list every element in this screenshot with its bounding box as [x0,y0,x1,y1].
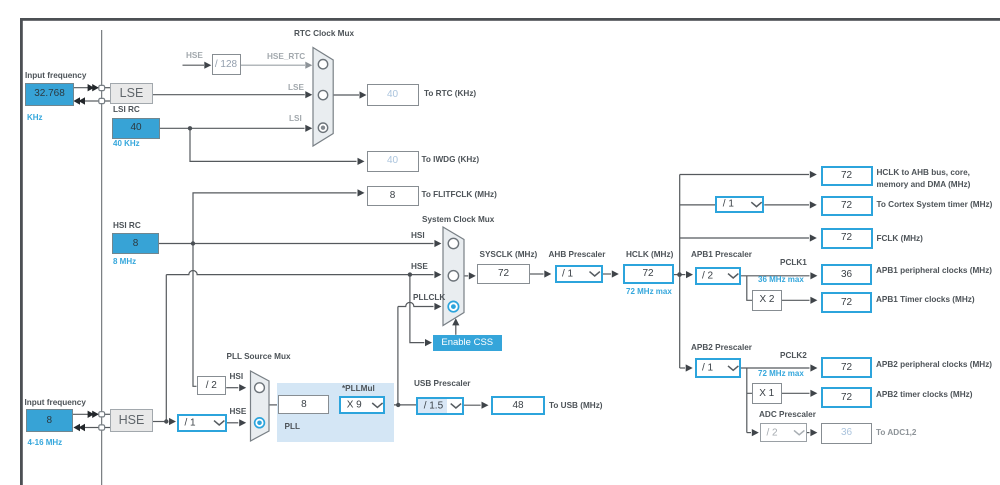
RTC mux radio HSE_RTC [318,59,327,68]
box cortex out 72 [821,196,873,216]
arrowhead APB2 timer box [810,390,817,397]
wire LSE input top [73,87,99,89]
arrowhead PCLK1 box [810,272,817,279]
box SYSCLK 72 [477,264,530,284]
arrowheads double left LSE input [73,97,85,104]
box X1 [752,383,782,404]
dropdown ADC /2 grayed [760,423,807,442]
label AHB Prescaler [549,250,606,260]
label 72 MHz max HCLK [626,287,672,297]
label PLLCLK dark [413,293,445,303]
arrowheads double right LSE input [88,84,99,91]
label HSE gray stub [186,51,203,61]
label ADC Prescaler [759,410,816,420]
wire HSI to system mux [159,243,434,245]
label HSE dark [411,262,428,272]
label LSI gray [289,114,302,124]
wire AHB prescaler to HCLK [603,273,612,275]
arrowhead FLITFCLK [358,189,365,196]
arrowhead cortex out box [810,201,817,208]
label To Cortex System timer [877,200,993,210]
arrowhead FCLK out box [810,234,817,241]
junction dot PLL out [396,403,400,407]
wire HSE vertical and to system mux with hop [166,271,433,422]
wire SYSCLK to AHB prescaler [530,273,544,275]
wire ADC out [807,432,810,434]
chevron ADC gray [794,430,804,434]
wire PLL /2 to mux [226,387,238,389]
output box To RTC [367,84,419,106]
divider box /128 [212,54,241,75]
wire HSE junction down to Enable CSS [410,275,424,343]
dropdown cortex /1 [715,196,764,214]
label 36 MHz max [758,275,804,285]
label PLL [285,422,300,432]
arrowhead into Enable CSS [425,339,432,346]
wire branch AHB out [680,174,809,176]
label 8 MHz [113,257,136,267]
box AHB out 72 [821,166,873,186]
wire system mux out [464,275,468,277]
box USB 48 [491,396,545,416]
label LSE gray [288,83,304,93]
arrowhead HSE into system mux [434,271,441,278]
arrowheads double right HSE input [88,411,99,418]
box PLL input 8 [278,395,329,414]
junction dot HSI [191,241,195,245]
PLL source mux trapezoid [251,371,270,441]
wire X1 out [782,392,810,394]
arrowhead into PLL /1 [169,418,176,425]
label To USB (MHz) [549,401,603,411]
wire PCLK1 [741,275,810,277]
wire branch FCLK [680,237,809,239]
arrowhead PCLK2 box [810,364,817,371]
wire distribution vertical [679,175,681,369]
label System Clock Mux [422,215,494,225]
label 4-16 MHz [28,438,63,448]
wire LSI branch to IWDG [190,128,357,161]
PLL mux radio HSE selected blue [255,418,265,428]
wire APB2 in [680,367,685,369]
label APB1 peripheral clocks [876,266,992,276]
dropdown PLL /1 [177,414,227,433]
wire ADC in [747,432,751,434]
PLL mux radio HSI [255,383,265,393]
label RTC Clock Mux [294,29,354,39]
label To IWDG (KHz) [422,155,480,165]
label PCLK1 [780,258,807,268]
label HCLK (MHz) [626,250,673,260]
dropdown USB /1.5 [416,397,464,415]
label PCLK2 [780,351,807,361]
arrowhead into ADC prescaler [752,429,759,436]
arrowhead RTC mux out [360,91,367,98]
box HCLK 72 [623,264,674,285]
wire LSE square1 to LSE box [105,87,110,89]
arrowhead into AHB prescaler [544,270,551,277]
PLL block background [277,383,395,443]
wire LSE square2 to LSE box [105,100,110,102]
frame border left [20,18,23,485]
wire LSE input bottom [84,100,99,102]
label LSI RC [113,105,140,115]
HSE oscillator box [110,409,153,432]
label KHz [27,113,43,123]
wire Enable CSS up arrow stem [455,325,457,335]
label APB2 peripheral clocks [876,360,992,370]
node square HSE bottom [99,425,105,430]
dropdown APB2 /1 [695,358,742,378]
wire HSE input bottom [84,427,99,429]
wire HSE square1 to HSE box [105,413,110,415]
arrowhead into APB1 prescaler [686,271,693,278]
junction dot HSE near CSS [408,272,412,276]
arrowhead LSE into RTC mux [305,91,312,98]
box ADC out 36 [821,423,872,444]
wire HSE square2 to HSE box [105,427,110,429]
arrowhead PLL /2 into mux [239,384,246,391]
label APB1 Timer clocks [876,295,975,305]
box APB1 timer 72 [821,292,872,313]
arrowhead APB1 timer box [810,297,817,304]
arrowhead AHB out box [810,171,817,178]
system mux radio PLLCLK selected blue [448,301,458,311]
junction dot HSE box [164,419,168,423]
arrowhead HSI into system mux [434,240,441,247]
wire X2 branch [747,276,752,301]
label 40 KHz [113,139,140,149]
label To RTC (KHz) [424,89,476,99]
LSE oscillator box [110,83,153,104]
label FCLK (MHz) [877,234,923,244]
label USB Prescaler [414,379,470,389]
wire /1.5 to 48 box [464,404,481,406]
dropdown APB1 /2 [695,267,742,286]
arrowhead USB prescaler to 48 [482,402,489,409]
node square HSE top [99,412,105,417]
label HCLK to AHB bus [877,168,970,178]
label APB2 Prescaler [691,343,752,353]
wire X9 to USB prescaler [385,404,416,406]
wire branch cortex [680,204,809,206]
frame border top [20,18,1000,21]
chip boundary vertical line [101,30,103,485]
wire /128 to RTC mux (gray) [241,64,306,66]
wire LSI to RTC mux [159,127,305,129]
RTC mux radio LSE [318,90,327,99]
label input frequency LSE [25,71,86,81]
input box 8 HSE [26,409,74,433]
wire PCLK2 [741,367,810,369]
arrowhead into APB2 prescaler [686,364,693,371]
arrowhead ADC out box [810,429,817,436]
label HSI RC [113,221,141,231]
box APB2 periph 72 [821,357,872,378]
label To ADC1,2 [876,428,916,438]
label memory and DMA [877,180,971,190]
label HSI PLL [230,372,244,382]
arrowhead /128 into RTC mux gray [305,62,312,69]
wire PLL mux to 8 box [269,404,278,406]
label APB2 timer clocks [876,390,972,400]
node square LSE bottom [99,98,105,103]
input box 32.768 [25,83,74,106]
box APB2 timer 72 [821,387,872,408]
LSI box 40 [112,118,160,139]
dropdown X9 [339,396,385,414]
RTC clock mux trapezoid [313,48,333,147]
box X2 [752,290,782,311]
node square LSE top [99,85,105,90]
wire HCLK to APB1 prescaler [674,274,686,276]
wire HSE input top [73,413,99,415]
arrowhead into HCLK [612,270,619,277]
button Enable CSS [433,335,502,351]
label 72 MHz max APB2 [758,369,804,379]
wire HSE stub to /128 [183,64,205,66]
label HSE_RTC [267,52,305,62]
arrowhead PLL /1 into mux [239,419,246,426]
divider box /2 PLL [197,376,227,395]
label SYSCLK (MHz) [480,250,538,260]
label APB1 Prescaler [691,250,752,260]
system mux radio HSI [448,238,458,248]
arrowhead HSE stub into /128 [204,62,211,69]
arrowheads double left HSE input [73,424,85,431]
label *PLLMul [342,384,375,394]
arrowhead system mux out into SYSCLK [469,272,476,279]
wire HSE box to /1 [153,421,168,423]
wire RTC mux out [333,94,359,96]
system clock mux trapezoid [443,227,464,326]
wire X1/ADC branch [747,368,752,433]
label HSI dark [411,231,425,241]
arrowhead LSI into RTC mux [305,125,312,132]
box APB1 periph 36 [821,264,872,285]
chevrons for dropdowns [214,202,762,425]
label HSE PLL [230,407,247,417]
HSI box 8 [112,233,159,254]
label To FLITFCLK (MHz) [422,190,497,200]
wire 8 box to X9 [330,404,340,406]
box FCLK out 72 [821,228,873,249]
RTC mux radio LSI selected [318,123,327,132]
junction dot LSI [188,126,192,130]
wire PLLCLK vertical and to system mux with hop [398,302,434,404]
wire HSI down to PLL /2 [193,244,197,387]
label input frequency HSE [25,398,86,408]
junction dot HCLK [677,272,682,277]
wire X2 out [782,299,810,301]
arrowhead up into mux bottom [452,318,459,325]
arrowhead IWDG [358,158,365,165]
system mux radio HSE [448,271,458,281]
label PLL Source Mux [227,352,291,362]
dropdown AHB /1 [555,265,603,284]
arrowhead PLLCLK into system mux [434,303,441,310]
wire HSI to FLITFCLK [193,193,357,244]
wire /1 to PLL mux [227,422,238,424]
output box To FLITFCLK [367,186,419,206]
wire LSE box to RTC mux [153,94,305,96]
output box To IWDG [367,151,419,172]
